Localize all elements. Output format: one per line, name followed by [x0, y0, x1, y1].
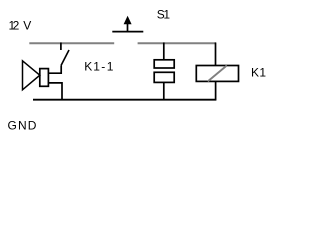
capacitor C1 bottom plate	[154, 72, 174, 82]
speaker LS1 body rectangle	[40, 69, 49, 87]
pushbutton S1 actuator arrow head	[124, 16, 132, 25]
wire relay coil bottom lead	[215, 81, 217, 99]
wire +12V rail left segment	[29, 42, 114, 44]
speaker LS1 cone triangle	[23, 61, 40, 90]
wire GND rail	[33, 99, 216, 101]
relay coil K1 diagonal stripe	[208, 66, 227, 82]
wire speaker upper lead	[48, 65, 61, 73]
wire speaker lower lead to GND	[48, 83, 62, 100]
wire +12V rail right segment	[138, 42, 216, 44]
svg-text:GND: GND	[8, 119, 37, 133]
relay contact K1-1 movable blade	[61, 50, 69, 65]
svg-text:K1-1: K1-1	[84, 59, 114, 73]
capacitor C1 top plate	[154, 60, 174, 68]
wire capacitor top lead	[163, 43, 165, 60]
svg-text:12V: 12V	[9, 18, 32, 32]
pushbutton S1 actuator stem	[127, 24, 129, 32]
relay coil K1 rectangle	[196, 66, 238, 82]
pushbutton S1 bridge bar	[112, 31, 143, 33]
svg-text:K1: K1	[251, 66, 266, 80]
relay contact K1-1 fixed terminal tick	[60, 43, 62, 51]
wire relay coil top lead	[215, 43, 217, 66]
wire capacitor bottom lead	[163, 82, 165, 99]
svg-text:S1: S1	[157, 8, 171, 22]
